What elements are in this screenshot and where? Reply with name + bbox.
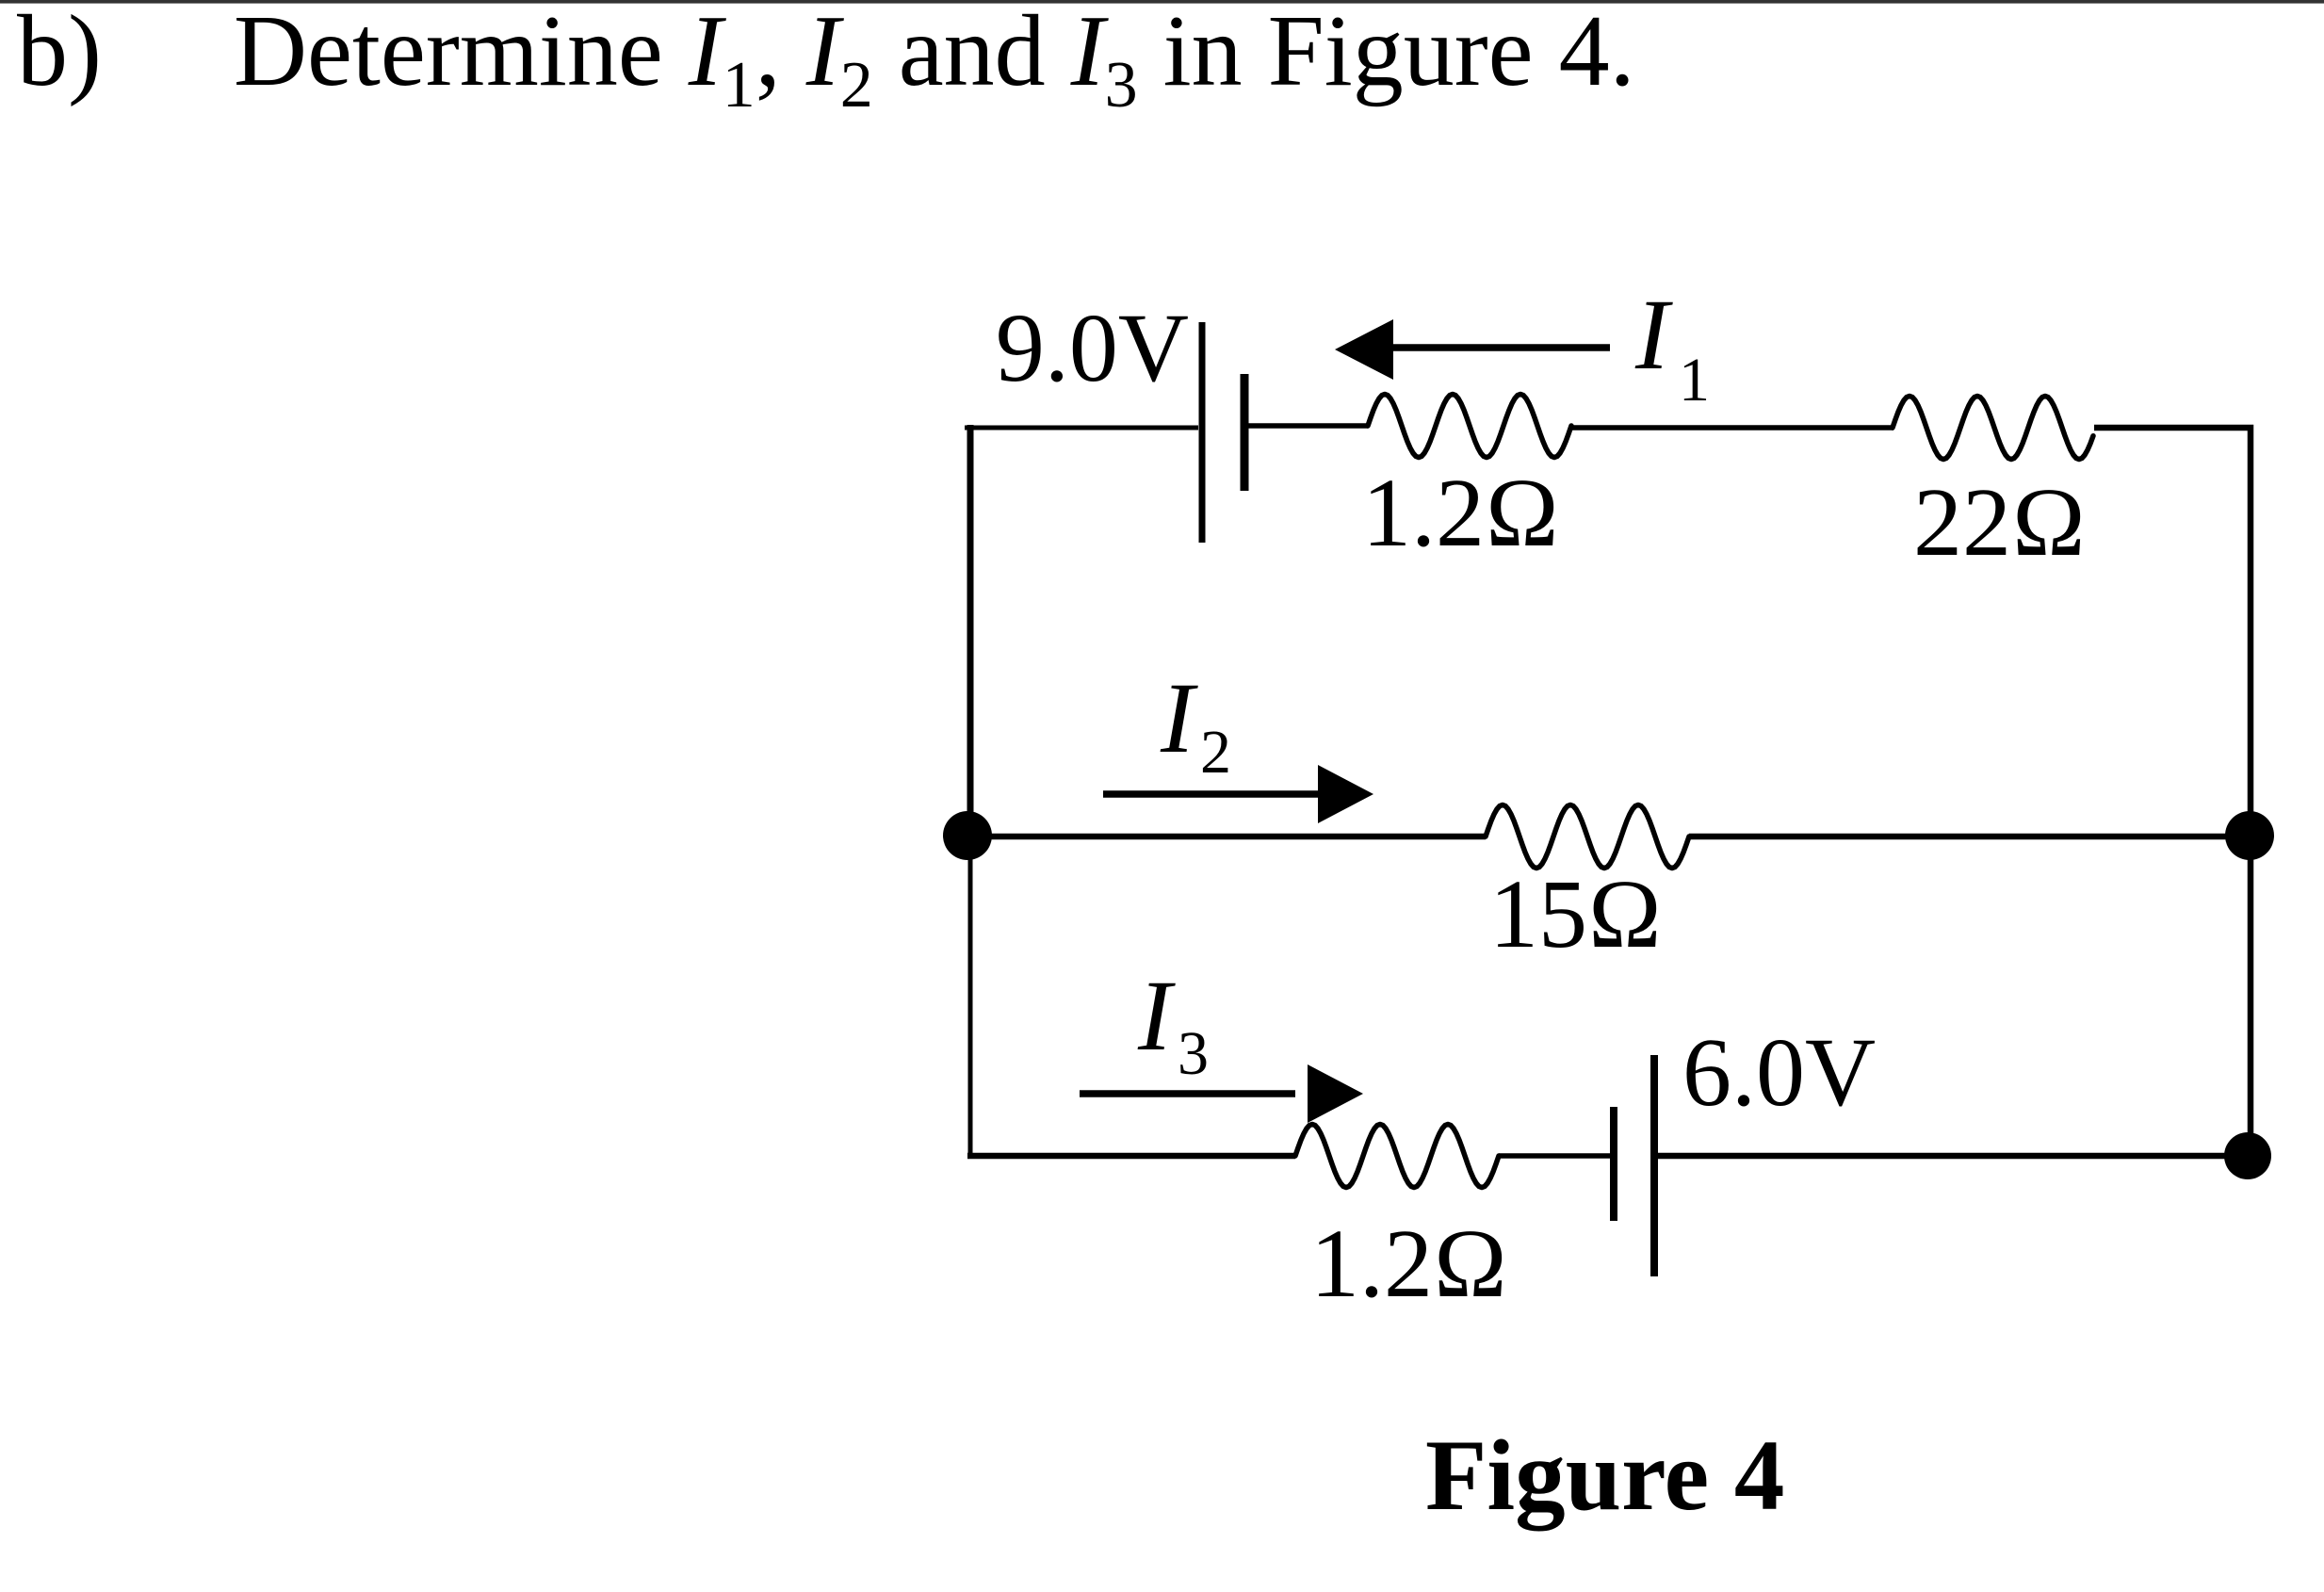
wire top-left horizontal: [965, 426, 1198, 430]
svg-text:1: 1: [1679, 346, 1710, 414]
wire middle left segment: [967, 834, 1486, 840]
resistor R1 1.2 ohm zigzag: [1368, 395, 1571, 458]
wire bottom left segment: [967, 1153, 1295, 1160]
svg-text:1.2Ω: 1.2Ω: [1362, 459, 1560, 567]
wire R2 to top-right corner and right vertical upper: [2094, 428, 2251, 837]
wire R4 to battery V2: [1499, 1153, 1610, 1159]
junction node left-middle: [943, 811, 992, 860]
top border bar: [0, 0, 2324, 4]
wire battery to resistor R1: [1248, 423, 1368, 429]
svg-text:6.0V: 6.0V: [1682, 1018, 1876, 1127]
resistor R2 22 ohm zigzag: [1893, 397, 2093, 460]
svg-text:I: I: [1160, 663, 1198, 774]
svg-text:9.0V: 9.0V: [996, 294, 1189, 402]
battery V2 6.0V short plate: [1610, 1107, 1617, 1221]
wire right vertical lower: [2248, 837, 2254, 1156]
battery V1 9.0V long plate: [1199, 322, 1206, 543]
svg-text:b): b): [17, 0, 102, 107]
svg-text:Figure 4: Figure 4: [1425, 1421, 1784, 1532]
svg-text:1.2Ω: 1.2Ω: [1310, 1210, 1508, 1318]
junction node right-middle: [2225, 811, 2274, 860]
current arrow I3: [1080, 1090, 1295, 1097]
svg-text:I: I: [1137, 961, 1176, 1072]
wire left vertical: [967, 425, 974, 820]
battery V1 9.0V short plate: [1241, 374, 1249, 491]
resistor R4 1.2 ohm zigzag bottom: [1295, 1125, 1499, 1188]
svg-text:2: 2: [1200, 718, 1231, 787]
current arrow I2: [1103, 790, 1321, 798]
battery V2 6.0V long plate: [1650, 1055, 1658, 1276]
svg-text:15Ω: 15Ω: [1489, 860, 1663, 968]
svg-text:I: I: [1634, 280, 1673, 391]
svg-text:Determine I1, I2 and I3 in Fig: Determine I1, I2 and I3 in Figure 4.: [234, 0, 1635, 122]
current arrow I1: [1392, 344, 1610, 351]
svg-text:22Ω: 22Ω: [1913, 468, 2087, 577]
resistor R3 15 ohm zigzag: [1486, 805, 1689, 869]
wire middle right segment: [1689, 834, 2251, 840]
wire battery V2 to bottom-right: [1658, 1153, 2251, 1160]
junction node right-bottom: [2224, 1132, 2271, 1179]
svg-text:3: 3: [1178, 1019, 1209, 1088]
wire R1 to R2: [1571, 425, 1893, 430]
